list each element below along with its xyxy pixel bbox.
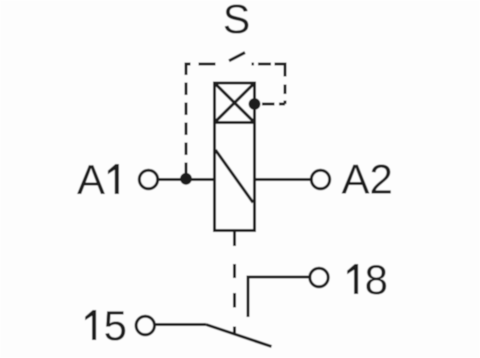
crossed-box X diagonal 1 [215, 83, 255, 123]
dashed control box: right vertical wire [284, 65, 287, 105]
svg-text:S: S [223, 0, 250, 42]
dashed control box: bottom leg to coil dot [261, 103, 286, 106]
dashed control box: left vertical wire [185, 63, 188, 174]
label A1 [77, 156, 119, 203]
switch S label [223, 0, 250, 42]
label A2 [342, 156, 393, 203]
junction dot on A1 wire [180, 173, 192, 185]
wire 18 horizontal [248, 276, 310, 279]
svg-text:A2: A2 [342, 156, 393, 203]
terminal 18 circle [310, 268, 328, 286]
label 18 [347, 256, 388, 303]
terminal A1 circle [139, 170, 157, 188]
terminal A2 circle [311, 170, 329, 188]
terminal 15 circle [136, 316, 154, 334]
contact blade 15-18 [206, 325, 272, 347]
relay coil box outline U1 [215, 83, 255, 231]
wire 15 horizontal [155, 323, 207, 326]
coil diagonal stroke [216, 150, 254, 203]
svg-text:A: A [77, 156, 105, 203]
coil bottom stub wire [233, 231, 236, 247]
dashed actuator link [233, 264, 236, 335]
switch S blade [229, 53, 245, 61]
junction dot on coil box right edge [249, 98, 261, 110]
coil box divider line [215, 121, 255, 124]
label 15 [85, 302, 127, 349]
wire A1 to coil [158, 178, 215, 181]
svg-text:5: 5 [104, 302, 127, 349]
wire coil to A2 [255, 178, 312, 181]
dashed control box: top-left horizontal wire [185, 63, 216, 66]
crossed-box X diagonal 2 [215, 83, 255, 123]
svg-text:8: 8 [365, 256, 388, 303]
dashed control box: top-right horizontal wire [252, 63, 287, 66]
wire 18 vertical fixed contact [247, 276, 250, 318]
